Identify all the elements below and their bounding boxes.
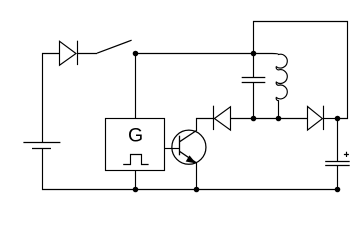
pulse generator U1 xyxy=(106,119,165,171)
diode D2 xyxy=(214,106,231,130)
node G2 xyxy=(335,187,341,193)
inductor L1 xyxy=(254,54,288,119)
diode D1 xyxy=(60,41,78,65)
wire xyxy=(43,149,338,190)
wire xyxy=(324,118,338,120)
node B xyxy=(251,51,257,57)
battery BT1 xyxy=(23,143,60,149)
wire xyxy=(78,53,98,55)
wire xyxy=(136,53,254,55)
wire xyxy=(135,171,137,190)
node F xyxy=(335,116,341,122)
capacitor C1 xyxy=(242,54,266,119)
wire xyxy=(231,118,254,120)
wire xyxy=(197,119,214,132)
wire xyxy=(165,148,180,150)
node H xyxy=(194,187,200,193)
node D xyxy=(251,116,257,122)
node C xyxy=(133,187,139,193)
diode D3 xyxy=(308,106,324,130)
transistor Q1 xyxy=(172,130,206,164)
wire xyxy=(254,22,348,119)
switch S1 xyxy=(97,40,132,53)
wire xyxy=(279,118,308,120)
node A xyxy=(133,51,139,57)
capacitor C2 xyxy=(325,119,350,190)
wire xyxy=(135,54,137,119)
svg-text:G: G xyxy=(128,124,143,146)
wire xyxy=(43,54,60,143)
node E xyxy=(276,116,282,122)
wire xyxy=(196,163,198,190)
wire xyxy=(254,118,279,120)
